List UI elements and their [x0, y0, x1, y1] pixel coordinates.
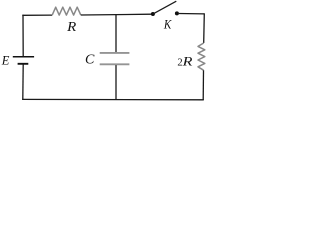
svg-text:C: C: [85, 52, 95, 67]
battery E short plate: [18, 63, 29, 65]
wire left upper vertical: [22, 15, 23, 56]
svg-text:K: K: [163, 16, 172, 31]
resistor R2 zigzag (2R): [198, 43, 205, 70]
wire top-right horizontal: [179, 13, 205, 15]
capacitor C bottom plate: [100, 63, 130, 65]
svg-text:R: R: [181, 53, 192, 68]
battery E long plate: [13, 56, 34, 58]
wire top-middle horizontal: [81, 13, 151, 16]
wire bottom horizontal: [22, 98, 204, 100]
node switch-left contact: [151, 12, 155, 16]
svg-text:E: E: [1, 54, 10, 68]
capacitor C top plate: [100, 52, 130, 54]
wire top-left horizontal: [23, 14, 52, 16]
svg-text:R: R: [66, 19, 77, 34]
node switch-right contact: [175, 11, 179, 15]
node capacitor top junction: [115, 15, 117, 53]
wire right lower vertical: [202, 70, 204, 100]
wire capacitor bottom vertical: [115, 65, 117, 100]
wire left lower vertical: [22, 64, 24, 100]
wire right upper vertical: [203, 13, 206, 43]
switch K arm: [154, 1, 177, 14]
resistor R1 zigzag: [52, 7, 81, 15]
